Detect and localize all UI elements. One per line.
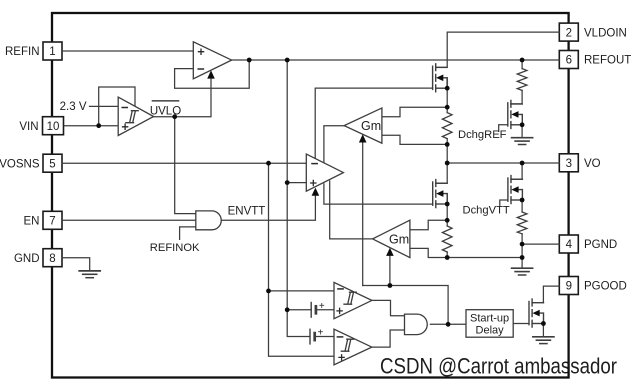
resistor R2 VTT sense xyxy=(442,220,452,257)
svg-text:CSDN @Carrot ambassador: CSDN @Carrot ambassador xyxy=(380,354,617,379)
wire VLDOIN pin2 to Q1 drain xyxy=(436,32,560,67)
wire comparator B output to AND2 xyxy=(372,330,405,347)
svg-text:2.3 V: 2.3 V xyxy=(60,101,87,113)
svg-text:VLDOIN: VLDOIN xyxy=(584,27,627,39)
junction dot VOSNS to error amp xyxy=(266,161,271,166)
arrowhead Gm1 enable xyxy=(359,134,367,142)
Gm amp U6 (VTT stage) xyxy=(373,220,410,257)
wire Gm1 upper input to sense resistor top xyxy=(382,107,447,117)
pin 3 VO xyxy=(559,154,600,172)
svg-text:2: 2 xyxy=(566,27,572,39)
svg-text:4: 4 xyxy=(566,239,573,251)
wire VO line to pin 3 xyxy=(447,162,559,164)
junction dot Q5 source xyxy=(541,321,546,326)
ground below DchgVTT xyxy=(512,268,533,275)
junction dot R2 top xyxy=(445,218,450,223)
AND gate U3 ENVTT xyxy=(196,211,221,230)
svg-text:6: 6 xyxy=(566,55,572,67)
junction dot AND2 output xyxy=(446,322,451,327)
wire start-up delay to Q5 gate xyxy=(513,323,529,325)
wire VOSNS sense vertical to PGOOD comparators xyxy=(269,163,335,356)
wire REFOUT reference vertical xyxy=(287,60,310,337)
svg-text:Start-up: Start-up xyxy=(470,312,509,324)
arrowhead error amp enable xyxy=(312,188,320,196)
wire VIN pin10 to UVLO comparator plus xyxy=(65,125,119,127)
Start-up Delay block xyxy=(466,310,513,338)
Gm amp U5 (REF stage) xyxy=(344,108,382,143)
op-amp U1 REFIN buffer xyxy=(193,42,231,79)
transistor Q4 DchgVTT FET xyxy=(508,176,523,204)
wire Gm2 output to error amp bottom xyxy=(330,181,373,239)
svg-text:3: 3 xyxy=(566,158,572,170)
junction dot R2 bottom line at DchgVTT foot xyxy=(520,255,525,260)
svg-text:7: 7 xyxy=(49,216,55,228)
wire VOSNS pin5 to error amp minus xyxy=(62,162,306,164)
svg-text:REFINOK: REFINOK xyxy=(150,242,200,254)
junction dot VOSNS to comparator A xyxy=(266,289,271,294)
transistor Q1 source FET (REF stage) xyxy=(433,64,448,92)
junction dot VO at output rail xyxy=(445,161,450,166)
arrowhead Gm2 enable xyxy=(386,248,394,256)
wire 2.3V stub to UVLO comparator minus xyxy=(90,105,119,107)
junction dot Gm2 enable tap xyxy=(388,283,393,288)
wire Q4 gate stub DchgVTT xyxy=(500,200,508,205)
IC boundary box xyxy=(52,13,569,378)
arrowhead buffer enable xyxy=(207,70,215,78)
wire R3 top from REFOUT line xyxy=(521,60,523,69)
comparator U7 PGOOD upper xyxy=(334,282,372,318)
svg-text:REFOUT: REFOUT xyxy=(584,55,631,67)
wire Gm1 lower input to sense resistor bottom xyxy=(382,135,447,144)
wire Gm2 lower input to sense resistor bottom xyxy=(410,248,447,257)
svg-text:1: 1 xyxy=(49,46,55,58)
pin 4 PGND xyxy=(559,235,617,253)
junction dot REFOUT at R3 xyxy=(520,58,525,63)
wire UVLO to buffer enable xyxy=(154,78,211,116)
svg-text:VO: VO xyxy=(584,158,601,170)
wire Q3 source to ground xyxy=(521,125,523,137)
wire Q4 drain from VO line xyxy=(511,163,522,179)
comparator U2 UVLO with hysteresis xyxy=(118,97,153,135)
junction dot R2 bottom xyxy=(445,255,450,260)
wire sink FET gate line from error amp bottom xyxy=(324,184,433,204)
resistor R4 DchgVTT pull xyxy=(517,212,527,234)
wire battery B1 feed branch xyxy=(287,309,311,311)
wire enable distribution from AND2 output xyxy=(363,286,448,325)
junction dot VIN xyxy=(96,123,101,128)
resistor R1 REF sense xyxy=(442,107,452,144)
svg-text:VIN: VIN xyxy=(19,121,38,133)
wire Q4 source to R4 xyxy=(521,200,523,212)
svg-text:PGND: PGND xyxy=(584,239,617,251)
svg-text:DchgVTT: DchgVTT xyxy=(463,204,510,216)
transistor Q2 sink FET (VTT stage) xyxy=(433,180,448,208)
svg-text:5: 5 xyxy=(49,158,55,170)
wire Q5 drain to pin 9 PGOOD xyxy=(543,286,559,303)
svg-text:GND: GND xyxy=(14,253,40,265)
pin 7 EN xyxy=(24,211,62,229)
wire R2 bottom to DchgVTT foot xyxy=(447,257,522,259)
pin 6 REFOUT xyxy=(559,51,631,69)
battery B2 (lower threshold ref) xyxy=(310,327,324,344)
wire PGND to pin 4 xyxy=(522,243,559,245)
wire comparator A minus branch xyxy=(269,290,335,292)
wire Gm1 output to error amp top xyxy=(324,126,344,163)
junction dot R1 top xyxy=(445,105,450,110)
junction dot reference to error amp plus xyxy=(285,180,290,185)
svg-text:ENVTT: ENVTT xyxy=(228,206,266,218)
transistor Q5 PGOOD FET xyxy=(529,299,544,327)
AND gate U9 PGOOD xyxy=(405,314,428,335)
svg-text:DchgREF: DchgREF xyxy=(458,129,507,141)
wire REFOUT net: buffer output to pin 6 xyxy=(232,59,560,61)
label UVLO (overlined) xyxy=(150,101,181,118)
svg-text:VOSNS: VOSNS xyxy=(0,158,40,170)
wire Q5 source to ground xyxy=(542,324,544,337)
pin 9 PGOOD xyxy=(559,277,627,295)
ground below Q5 xyxy=(533,337,554,344)
wire Gm2 enable vertical xyxy=(389,255,391,285)
resistor R3 DchgREF pull xyxy=(517,69,527,91)
svg-text:+: + xyxy=(319,301,325,312)
wire Gm2 upper input to sense resistor top xyxy=(410,220,447,230)
wire R4 to PGND node and ground xyxy=(521,234,523,268)
battery B1 (upper threshold ref) xyxy=(311,301,325,317)
wire REFIN pin1 to buffer + input xyxy=(62,50,193,52)
junction dot R1 bottom xyxy=(445,142,450,147)
pin 1 REFIN xyxy=(5,42,62,60)
wire comparator A output to AND2 xyxy=(372,300,404,315)
svg-text:Gm: Gm xyxy=(361,119,381,133)
junction dot reference to battery B1 xyxy=(285,307,290,312)
wire Q2 drain from VO line xyxy=(436,163,447,183)
junction dot Q1 source xyxy=(445,86,450,91)
svg-text:UVLO: UVLO xyxy=(150,106,181,118)
junction dot Q2 source xyxy=(445,202,450,207)
junction dot UVLO branch xyxy=(172,114,177,119)
junction dot REFOUT to reference vertical xyxy=(285,58,290,63)
wire battery B1 to comparator A plus xyxy=(316,309,334,311)
svg-text:REFIN: REFIN xyxy=(5,46,40,58)
svg-text:9: 9 xyxy=(566,281,572,293)
junction dot VO at DchgVTT xyxy=(520,161,525,166)
junction dot PGND xyxy=(520,242,525,247)
wire REFINOK stub to AND gate xyxy=(180,227,196,240)
wire Q1 source rail to R1 xyxy=(446,78,448,107)
junction dot Q3 source xyxy=(520,122,525,127)
wire Gm1 enable vertical xyxy=(362,142,364,286)
svg-text:+: + xyxy=(318,327,324,338)
comparator U8 PGOOD lower xyxy=(334,329,372,365)
wire source FET gate line from error amp top xyxy=(315,88,432,158)
wire VIN supply loop over comparator xyxy=(99,87,135,126)
wire Q3 gate stub DchgREF xyxy=(499,125,508,132)
transistor Q3 DchgREF FET xyxy=(508,100,523,128)
wire EN pin7 to AND gate xyxy=(62,219,196,221)
pin 10 VIN xyxy=(19,117,63,135)
wire UVLO branch down to AND gate xyxy=(175,117,196,214)
pin 2 VLDOIN xyxy=(559,23,627,41)
wire error amp plus branch xyxy=(287,182,306,184)
wire Q2 source rail to R2 xyxy=(446,194,448,221)
wire GND pin8 to ground xyxy=(62,258,90,271)
svg-text:8: 8 xyxy=(49,253,55,265)
svg-text:EN: EN xyxy=(24,216,40,228)
pin 8 GND xyxy=(14,249,62,267)
svg-text:Delay: Delay xyxy=(476,324,505,336)
ground below Q3 xyxy=(512,138,533,145)
ground at GND pin xyxy=(79,271,100,278)
svg-text:Gm: Gm xyxy=(389,233,409,247)
wire R3 bottom to Q3 drain xyxy=(511,90,522,104)
wire ENVTT: AND output to error amp enable xyxy=(221,196,315,221)
junction dot Q4 source xyxy=(520,198,525,203)
pin 5 VOSNS xyxy=(0,154,62,172)
wire battery B2 to comparator B minus xyxy=(315,336,334,338)
error amp U4 xyxy=(306,154,343,191)
wire AND2 output to start-up delay xyxy=(430,323,466,325)
svg-text:PGOOD: PGOOD xyxy=(584,281,627,293)
wire buffer feedback loop xyxy=(175,60,250,88)
junction dot buffer output xyxy=(247,58,252,63)
wire R1 to VO node xyxy=(446,144,448,163)
svg-text:10: 10 xyxy=(47,121,60,133)
